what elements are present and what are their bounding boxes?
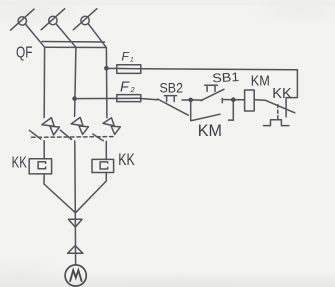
svg-text:1: 1: [130, 57, 134, 64]
wire fuse F2 to SB2: [139, 98, 157, 99]
phase terminal L3: [73, 9, 97, 30]
svg-text:KK: KK: [118, 151, 135, 169]
coil KM: [245, 90, 255, 111]
svg-text:KK: KK: [272, 85, 292, 102]
wire feed diagonal L1: [25, 24, 44, 47]
breaker QF pole 1 contact: [29, 118, 59, 159]
wire KK2 lower lead: [76, 173, 107, 213]
phase terminal L1: [11, 9, 35, 30]
phase terminal L2: [41, 9, 65, 30]
wire coil to KK contact: [254, 99, 265, 102]
connector plug triangle (down): [68, 219, 82, 227]
contact KK thermal (NC) blade: [265, 100, 294, 113]
svg-text:F: F: [120, 79, 130, 95]
svg-text:F: F: [122, 50, 130, 64]
node SB2/KM junction: [188, 98, 193, 103]
fuse F1: [117, 65, 141, 74]
fuse F2: [117, 95, 141, 102]
button SB2 (NC): [158, 96, 191, 116]
svg-text:KK: KK: [12, 154, 28, 171]
motor M1: [65, 265, 86, 286]
svg-text:KM: KM: [198, 122, 222, 140]
svg-text:KM: KM: [251, 74, 270, 90]
wire feed diagonal L3: [88, 24, 106, 48]
contact KK trip dashed link: [277, 105, 279, 119]
bus bar top line: [42, 41, 105, 44]
node F2 tap: [72, 96, 77, 101]
svg-text:2: 2: [130, 85, 136, 94]
wire control top rail: [139, 69, 297, 117]
wire SB1 to coil: [233, 99, 244, 101]
svg-text:SB1: SB1: [212, 70, 240, 85]
contact KK thermal element symbol: [263, 120, 289, 126]
contact KM latch (NO, parallel SB1): [191, 100, 234, 121]
thermal element KK right box: [92, 159, 114, 172]
breaker QF pole 3 contact: [93, 118, 121, 160]
bus bar bottom line: [45, 46, 107, 48]
breaker QF pole 2 contact: [60, 117, 88, 212]
wire motor feed vertical: [74, 213, 76, 265]
wire KK1 lower lead: [44, 174, 75, 213]
connector socket triangle (up): [68, 246, 83, 254]
wire phase A vertical: [43, 47, 45, 117]
button SB1 (NO): [191, 85, 234, 102]
node F1 tap: [104, 66, 109, 71]
wire feed diagonal L2: [56, 24, 76, 48]
thermal element KK left box: [29, 159, 51, 174]
svg-text:SB2: SB2: [160, 80, 184, 96]
wire phase C vertical: [105, 48, 108, 118]
node SB1/KM junction: [231, 97, 236, 102]
wire to fuse F1: [106, 67, 140, 69]
wire to fuse F2: [75, 97, 141, 99]
svg-text:QF: QF: [16, 45, 33, 62]
breaker QF linkage dashed: [32, 136, 115, 139]
wire phase B vertical: [75, 47, 76, 116]
